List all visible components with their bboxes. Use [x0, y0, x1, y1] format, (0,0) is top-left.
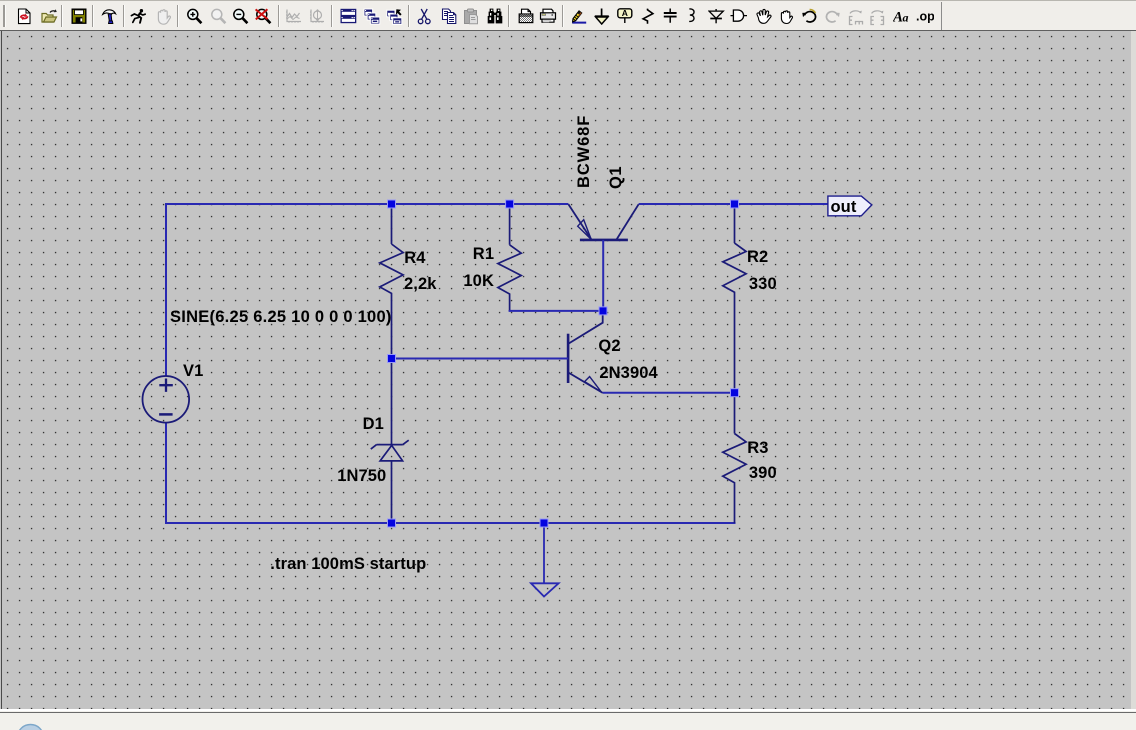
- transistor Q2 (NPN 2N3904): [568, 311, 603, 393]
- toolbar icon: rotate (disabled): [848, 8, 864, 26]
- toolbar icon: zoom full extents: [254, 8, 273, 26]
- label D1 value 1N750: [337, 467, 386, 485]
- label R3 value 390: [749, 464, 777, 482]
- port flag out: [828, 196, 872, 216]
- wire left drop to V1: [165, 203, 167, 376]
- toolbar icon: capacitor mode: [663, 8, 678, 25]
- toolbar icon: run: [130, 8, 147, 25]
- junction node at R1 top: [506, 200, 514, 208]
- toolbar icon: print preview: [518, 8, 534, 25]
- label R1 value 10K: [463, 272, 494, 290]
- toolbar icon: plot settings (disabled): [308, 8, 325, 25]
- toolbar icon: cascade windows: [363, 8, 381, 25]
- resistor R1: [498, 204, 521, 311]
- resistor R3: [723, 393, 746, 523]
- toolbar icon: print: [539, 8, 557, 25]
- wire R1 bottom to Q1 base node: [510, 309, 604, 312]
- toolbar icon: undo: [801, 8, 818, 25]
- toolbar icon: paste (disabled): [463, 8, 480, 25]
- toolbar icon: component mode: [730, 8, 748, 25]
- wire V1 bottom to ground rail: [165, 423, 167, 524]
- toolbar icon: zoom back (disabled): [210, 8, 228, 26]
- toolbar icon: text Aa: [893, 8, 910, 25]
- label R1: [473, 245, 494, 263]
- toolbar right separator: [941, 2, 942, 30]
- toolbar icon: waveform (disabled): [285, 8, 302, 25]
- transistor Q1 (PNP BCW68F): [568, 204, 638, 240]
- toolbar icon: spice directive .op: [916, 8, 934, 25]
- label SINE source value: [170, 308, 392, 326]
- toolbar icon: copy: [441, 8, 458, 25]
- resistor R2: [723, 204, 746, 393]
- voltage source V1: [143, 376, 190, 423]
- taskbar icon arc: [14, 722, 64, 730]
- toolbar icon: new schematic: [16, 8, 32, 25]
- toolbar icon: zoom to fit windows: [386, 8, 404, 25]
- wire Q2 emitter to R3 top node: [603, 392, 736, 394]
- toolbar icon: cut: [417, 8, 432, 26]
- junction node at D1 bottom rail: [388, 519, 396, 527]
- toolbar icon: drag: [778, 8, 794, 25]
- label Q2 value 2N3904: [599, 364, 657, 382]
- toolbar icon: tile horizontally: [340, 8, 357, 24]
- toolbar icon: zoom in: [186, 8, 204, 26]
- wire R4/D1 node to Q2 base: [391, 358, 569, 360]
- wire top rail left (V1 to Q1 emitter): [165, 203, 568, 205]
- toolbar icon: ground mode: [594, 8, 610, 25]
- wire top rail right (Q1 collector to out port): [639, 203, 828, 205]
- label R3: [747, 439, 768, 457]
- toolbar icon: open: [41, 8, 58, 25]
- label D1: [363, 415, 384, 433]
- toolbar icon: mirror (disabled): [869, 8, 886, 26]
- wire Q1 base lead down to node: [602, 240, 604, 312]
- junction node at R4 top: [388, 200, 396, 208]
- resistor R4: [380, 204, 403, 445]
- net label out: [831, 198, 857, 216]
- toolbar icon: wire mode pencil: [571, 8, 588, 25]
- junction node at Q1 base / R1 / Q2 collector: [599, 307, 607, 315]
- zener diode D1: [371, 440, 409, 523]
- toolbar icon: diode mode: [708, 8, 725, 25]
- toolbar icon: net label mode: [617, 8, 633, 24]
- toolbar icon: control panel hammer: [101, 8, 118, 25]
- junction node at R4 bottom / Q2 base: [388, 355, 396, 363]
- label R2 value 330: [749, 275, 777, 293]
- wire bottom ground rail: [165, 522, 736, 524]
- label V1: [183, 362, 203, 380]
- ground symbol: [531, 523, 559, 597]
- label R4 value 2,2k: [404, 275, 437, 293]
- toolbar icon: resistor mode: [641, 8, 655, 25]
- toolbar icon: zoom out: [232, 8, 250, 26]
- label R4: [404, 249, 425, 267]
- toolbar icon: move: [754, 8, 772, 25]
- label R2: [747, 248, 768, 266]
- label Q2: [598, 337, 620, 355]
- spice directive .tran: [270, 555, 426, 573]
- toolbar icon: find: [487, 8, 504, 25]
- label Q1 (rotated): [607, 165, 625, 188]
- toolbar icon: redo (disabled): [824, 8, 841, 25]
- toolbar icon: save: [71, 8, 87, 25]
- junction node at R2 top: [731, 200, 739, 208]
- junction node at ground stem: [540, 519, 548, 527]
- junction node at Q2 emitter / R2 bottom: [731, 389, 739, 397]
- toolbar gripper: [3, 5, 6, 27]
- toolbar icon: inductor mode: [685, 8, 699, 25]
- label Q1 value BCW68F (rotated): [575, 115, 593, 188]
- toolbar icon: halt (disabled): [155, 8, 171, 25]
